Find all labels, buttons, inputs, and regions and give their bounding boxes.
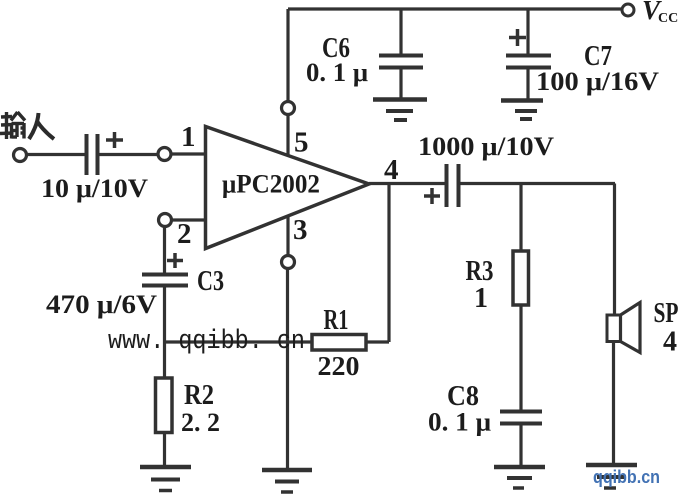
pin 2 terminal circle xyxy=(159,214,172,227)
wire output cap to right xyxy=(460,182,615,185)
svg-text:μPC2002: μPC2002 xyxy=(222,170,320,199)
capacitor C output 1000u/10V xyxy=(424,164,459,207)
op-amp U1 uPC2002 xyxy=(206,127,370,249)
capacitor C3 xyxy=(142,253,188,286)
resistor R3 xyxy=(513,251,529,305)
wire R3 drop xyxy=(519,184,522,252)
svg-text:3: 3 xyxy=(293,214,308,246)
svg-text:1: 1 xyxy=(181,121,196,153)
svg-text:CC: CC xyxy=(658,11,678,26)
svg-text:2: 2 xyxy=(177,218,192,250)
svg-text:1000 μ/10V: 1000 μ/10V xyxy=(418,132,554,161)
resistor R1 xyxy=(312,335,366,351)
ground under speaker xyxy=(586,465,637,488)
wire pin 2 to op-amp xyxy=(172,218,207,221)
svg-text:1: 1 xyxy=(474,283,488,314)
svg-text:220: 220 xyxy=(318,351,360,381)
resistor R2 xyxy=(156,378,173,433)
svg-text:qqibb.cn: qqibb.cn xyxy=(593,467,660,487)
ground under C6 xyxy=(373,100,427,121)
wire pin 2 down to C3 xyxy=(163,227,166,274)
wire C3 to R2 xyxy=(163,287,166,378)
svg-text:470 μ/6V: 470 μ/6V xyxy=(46,290,157,319)
pin 3 terminal circle xyxy=(282,256,295,269)
svg-text:R2: R2 xyxy=(184,380,214,411)
svg-text:5: 5 xyxy=(294,127,309,159)
ground under C7 xyxy=(501,101,543,120)
pin 1 terminal circle xyxy=(158,148,171,161)
label Vcc xyxy=(642,0,678,26)
svg-text:0. 1 μ: 0. 1 μ xyxy=(428,408,491,437)
wire pin 3 stub xyxy=(286,215,289,256)
wire left drop from rail to pin 5 xyxy=(286,9,289,101)
input terminal xyxy=(14,149,27,162)
wire feedback drop xyxy=(387,184,390,343)
Vcc terminal xyxy=(622,4,634,16)
wire right drop to speaker xyxy=(613,184,616,317)
svg-text:100 μ/16V: 100 μ/16V xyxy=(536,67,659,96)
capacitor C8 xyxy=(500,412,542,424)
wire C8 to ground xyxy=(519,425,522,465)
wire pin 5 stub to op-amp xyxy=(286,115,289,158)
wire top supply rail xyxy=(288,7,621,10)
wire C1 to pin 1 xyxy=(99,153,158,156)
svg-text:2. 2: 2. 2 xyxy=(181,408,220,437)
svg-text:R1: R1 xyxy=(324,305,349,336)
svg-text:0. 1 μ: 0. 1 μ xyxy=(306,58,368,87)
svg-text:www. qqibb. cn: www. qqibb. cn xyxy=(108,327,305,357)
pin 5 terminal circle xyxy=(282,102,295,115)
wire speaker to ground xyxy=(612,342,615,464)
wire pin 3 to ground xyxy=(286,269,289,469)
svg-text:10 μ/10V: 10 μ/10V xyxy=(41,174,148,203)
svg-text:C3: C3 xyxy=(197,266,224,297)
svg-text:4: 4 xyxy=(384,154,399,186)
wire R1 left xyxy=(165,340,313,343)
wire R2 to ground xyxy=(163,433,166,466)
ground under pin 3 xyxy=(262,470,312,492)
wire input to C1 xyxy=(27,153,85,156)
svg-text:4: 4 xyxy=(663,327,677,358)
wire R1 right xyxy=(366,340,389,343)
speaker SP xyxy=(607,303,640,353)
capacitor C7 xyxy=(506,9,551,99)
svg-text:SP: SP xyxy=(654,298,679,329)
capacitor 10u/10V input xyxy=(87,132,124,175)
label input 输入 xyxy=(0,112,25,139)
ground under R2 xyxy=(140,467,191,491)
wire R3 to C8 xyxy=(519,305,522,410)
wire pin 1 to op-amp xyxy=(171,152,206,155)
ground under C8 xyxy=(494,467,545,488)
capacitor C6 xyxy=(379,9,423,98)
wire output from op-amp xyxy=(369,182,445,185)
